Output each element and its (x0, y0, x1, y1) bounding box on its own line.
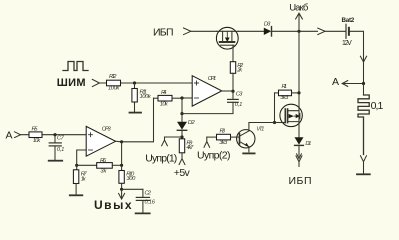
node junction shunt top (362, 82, 365, 85)
wire OP3 out down to R6/R10 (121, 142, 123, 166)
svg-text:Uвых: Uвых (94, 198, 132, 212)
node junction R7/R6 (75, 164, 78, 167)
resistor R9 (179, 137, 194, 158)
svg-text:100k: 100k (108, 86, 120, 92)
op-amp OP3 (86, 126, 115, 156)
svg-text:R1: R1 (282, 84, 288, 90)
resistor R6 (77, 158, 122, 175)
terminal Uупр(2) (204, 137, 210, 147)
wire mosfet to D3 (238, 30, 264, 32)
svg-text:3k3: 3k3 (219, 140, 228, 146)
arrow down shunt bottom (361, 156, 367, 174)
wire node to D2 junction (181, 98, 183, 114)
input arrow A (15, 132, 21, 138)
svg-text:A: A (6, 129, 13, 141)
battery Bat2 (342, 17, 355, 47)
input arrow ШИМ (92, 79, 99, 86)
mosfet VT top (switch) (216, 27, 238, 61)
svg-text:ИБП: ИБП (289, 175, 312, 187)
arrow ИБП input (184, 28, 191, 35)
wire D3 to node (272, 30, 318, 32)
ground R7 (70, 194, 83, 196)
ground C7 (49, 160, 63, 162)
svg-text:0,1: 0,1 (371, 100, 384, 112)
svg-text:D1: D1 (305, 141, 311, 147)
wire OP1 minus input (182, 97, 192, 99)
svg-text:ИБП: ИБП (153, 27, 174, 39)
wire battery to right corner (350, 31, 364, 55)
svg-text:10k: 10k (33, 138, 42, 144)
wire to Uупр(1) (165, 136, 183, 138)
terminal +5v (179, 159, 185, 165)
resistor R2 (230, 62, 244, 91)
wire VT1 emitter (248, 147, 250, 152)
arrow to battery (318, 28, 325, 34)
diode D1 (295, 137, 312, 156)
transistor VT1 (237, 127, 265, 148)
arrow down right rail (360, 55, 366, 84)
capacitor C2 (136, 189, 155, 212)
terminal Uупр(1) (162, 137, 168, 146)
svg-text:Uакб: Uакб (289, 3, 309, 14)
svg-text:Uупр(1): Uупр(1) (145, 153, 177, 165)
node junction Uвых (120, 188, 123, 191)
svg-text:C3: C3 (236, 92, 243, 98)
ground C2 (136, 212, 150, 214)
capacitor C7 (49, 135, 64, 160)
node junction D2 top (180, 112, 183, 115)
node junction OP1 out/R2/C3 (231, 90, 234, 93)
node junction OP3 out (120, 140, 123, 143)
svg-text:A: A (332, 76, 339, 88)
svg-text:0,1: 0,1 (57, 147, 65, 153)
svg-text:+5v: +5v (174, 167, 191, 179)
wire arrow to battery (325, 30, 346, 32)
svg-text:R3: R3 (220, 129, 226, 135)
svg-text:C7: C7 (57, 136, 65, 142)
ground right rail (357, 173, 370, 175)
svg-text:ШИМ: ШИМ (57, 77, 86, 89)
mosfet VT right (low side of R1) (275, 93, 303, 137)
resistor R12 (107, 74, 121, 92)
svg-text:R5: R5 (32, 127, 39, 133)
resistor R5 (29, 127, 42, 144)
wire to C2 (122, 188, 143, 190)
resistor R10 (119, 165, 136, 189)
svg-text:R6: R6 (100, 158, 107, 164)
diode D3 (264, 22, 272, 37)
wire OP3 minus feedback (77, 150, 87, 165)
svg-text:Bat2: Bat2 (342, 17, 355, 24)
arrow down to ИБП (296, 154, 302, 167)
svg-text:10k: 10k (160, 102, 169, 108)
svg-text:3k3: 3k3 (280, 95, 289, 101)
wire VT1 collector (249, 123, 275, 131)
wire Uакб node down to R1 (298, 31, 300, 93)
svg-text:0,16: 0,16 (145, 199, 156, 205)
svg-text:D3: D3 (264, 22, 271, 28)
op-amp OP1 (192, 76, 222, 106)
arrow A measure (342, 81, 363, 87)
svg-text:R4: R4 (161, 90, 167, 96)
node junction minus/R4 (180, 96, 183, 99)
svg-text:0,1: 0,1 (235, 102, 243, 108)
capacitor C3 (228, 91, 243, 108)
svg-text:Uупр(2): Uупр(2) (197, 149, 231, 161)
svg-text:OP1: OP1 (208, 76, 216, 82)
svg-text:OP3: OP3 (102, 127, 112, 133)
node junction R1 right (297, 91, 300, 94)
ground under R11 (130, 112, 142, 114)
node junction C7 (53, 133, 56, 136)
net arrow Uакб (296, 13, 303, 31)
shunt resistor 0,1 (358, 84, 384, 155)
node junction gate net (273, 121, 276, 124)
wire ШИМ to OP1 + input (100, 82, 193, 84)
square wave icon (63, 62, 88, 71)
svg-text:300: 300 (126, 176, 136, 182)
node junction R6/R10 (120, 164, 123, 167)
resistor R3 (207, 129, 240, 146)
svg-text:4k7: 4k7 (186, 145, 194, 151)
wire OP1 output (222, 90, 233, 92)
arrow Uвых (119, 189, 125, 199)
wire ИБП input (191, 30, 217, 32)
svg-text:VT1: VT1 (256, 127, 264, 133)
svg-text:3k: 3k (100, 168, 107, 174)
wire A to OP3 (21, 134, 87, 136)
node junction Uакб (297, 30, 300, 33)
node junction R12/R11 (133, 81, 136, 84)
wire OP3 output (116, 98, 154, 142)
wire C3 bottom return (182, 102, 233, 113)
resistor R11 (132, 83, 152, 112)
wire R1 left down to gate net (274, 93, 276, 123)
diode D2 (177, 114, 195, 137)
ground VT1 (243, 152, 254, 154)
svg-text:100k: 100k (140, 94, 152, 100)
resistor R1 (275, 84, 300, 101)
node junction D2 bottom (180, 135, 183, 138)
resistor R4 (154, 90, 183, 108)
svg-text:12V: 12V (342, 40, 352, 47)
svg-text:C2: C2 (145, 190, 152, 196)
svg-text:D2: D2 (188, 120, 196, 126)
svg-text:R12: R12 (109, 74, 117, 80)
resistor R7 (73, 165, 87, 194)
